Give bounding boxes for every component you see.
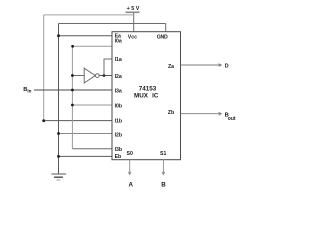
svg-text:I2a: I2a [115,74,122,80]
wire I0a from V3 to IC [72,45,112,47]
svg-text:A: A [129,181,134,188]
svg-text:I0a: I0a [115,38,122,44]
svg-text:D: D [225,63,229,69]
svg-text:B: B [161,181,166,188]
svg-text:S1: S1 [160,151,166,157]
svg-text:Bin: Bin [23,87,31,94]
wire GND rail horizontal [59,23,166,25]
junction dot V1/I1b [42,119,45,122]
junction dot V2/Eb [57,155,60,158]
wire Vcc vertical from +5V to IC [133,12,135,31]
inverter U1 bubble [95,74,99,78]
wire S0 select with arrow [128,160,131,175]
wire V3 Bin vertical rail [71,46,73,149]
wire Ea from V2 to IC [59,35,113,37]
svg-text:Zb: Zb [168,110,174,116]
svg-text:S0: S0 [127,151,133,157]
svg-text:Bout: Bout [225,113,236,122]
svg-text:I1b: I1b [115,118,123,124]
wire V2 ground vertical rail [58,24,60,175]
wire Zb output with arrow [181,112,222,115]
svg-text:Za: Za [168,64,174,70]
+5V supply bar [126,11,140,13]
wire V1 +5V vertical rail [43,15,45,121]
junction dot V3/inverter input [71,74,74,77]
junction dot V3/I0b [71,104,74,107]
svg-text:IC: IC [152,93,159,100]
wire Za output with arrow [181,64,222,67]
svg-text:I2b: I2b [115,132,123,138]
junction dot V2/Ea [57,34,60,37]
wire I2a inverter output to IC [99,75,112,77]
wire Eb from V2 to IC [59,155,113,157]
wire I2b from V2 to IC [59,133,113,135]
svg-text:I1a: I1a [115,57,122,63]
wire I1b from V1 to IC [44,120,113,122]
junction dot V3 top corner [71,45,74,48]
IC U2 74153 body [112,32,181,160]
svg-text:I3a: I3a [115,88,122,94]
svg-text:+ 5 V: + 5 V [127,6,140,12]
wire Bin to I3a [34,89,112,91]
svg-text:MUX: MUX [134,93,149,100]
svg-text:I3b: I3b [115,147,123,153]
junction dot V2/I2b [57,132,60,135]
svg-text:74153: 74153 [139,85,157,92]
wire S1 select with arrow [162,160,165,175]
wire I3b from V3 corner to IC [72,148,112,150]
wire inverter input from V3 [72,75,84,77]
svg-text:Eb: Eb [115,154,122,160]
svg-text:GND: GND [157,34,168,40]
wire I0b from V3 to IC [72,104,112,106]
junction dot V3/Bin [71,89,74,92]
svg-text:I0b: I0b [115,103,123,109]
inverter U1 triangle [84,68,95,83]
svg-text:Vcc: Vcc [128,34,137,40]
ground symbol [51,174,66,180]
wire GND vertical into IC top [165,24,167,32]
wire branch up to I1a [104,59,112,76]
wire +5V top rail horizontal [44,14,134,16]
junction dot inverter output branch [103,74,106,77]
